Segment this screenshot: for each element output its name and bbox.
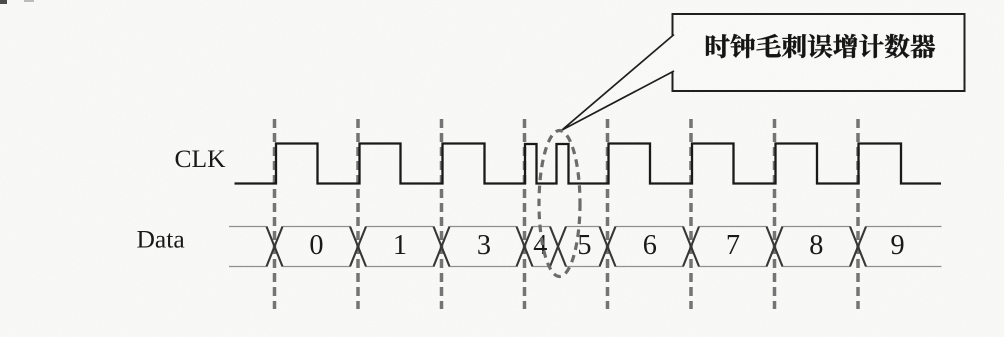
bus transition X 3 (x=441.5)	[434, 227, 450, 267]
callout label text 时钟毛刺误增计数器	[706, 34, 935, 58]
bus transition X 7 (x=691)	[683, 227, 699, 267]
dashed clock-edge line 8 (x=858)	[856, 119, 860, 309]
dashed clock-edge line 1 (x=274.5)	[273, 119, 277, 309]
dashed clock-edge line 5 (x=607.5)	[606, 119, 610, 309]
callout box	[673, 14, 965, 91]
dashed clock-edge line 6 (x=691)	[689, 119, 693, 309]
bus transition X 2 (x=358)	[350, 227, 366, 267]
data bus rails	[229, 227, 942, 267]
bus transition X 5 (x=558)	[550, 227, 566, 267]
dashed clock-edge line 2 (x=358)	[356, 119, 360, 309]
scan speck	[0, 0, 7, 4]
dashed clock-edge line 3 (x=441.5)	[440, 119, 444, 309]
dashed clock-edge line 7 (x=774.5)	[773, 119, 777, 309]
clock-edge alignment dashed lines	[275, 119, 859, 309]
bus transition X 6 (x=607.5)	[600, 227, 616, 267]
data bus transition crossovers	[267, 227, 867, 267]
CLK waveform with glitch pulses	[235, 144, 942, 184]
data values	[309, 230, 904, 261]
bus transition X 4 (x=524.5)	[517, 227, 533, 267]
bus transition X 8 (x=774.5)	[767, 227, 783, 267]
dashed clock-edge line 4 (x=524.5)	[523, 119, 527, 309]
bus transition X 9 (x=858)	[850, 227, 866, 267]
callout pointer wedge	[562, 35, 674, 131]
glitch highlight ellipse	[539, 131, 580, 277]
bus transition X 1 (x=274.5)	[267, 227, 283, 267]
